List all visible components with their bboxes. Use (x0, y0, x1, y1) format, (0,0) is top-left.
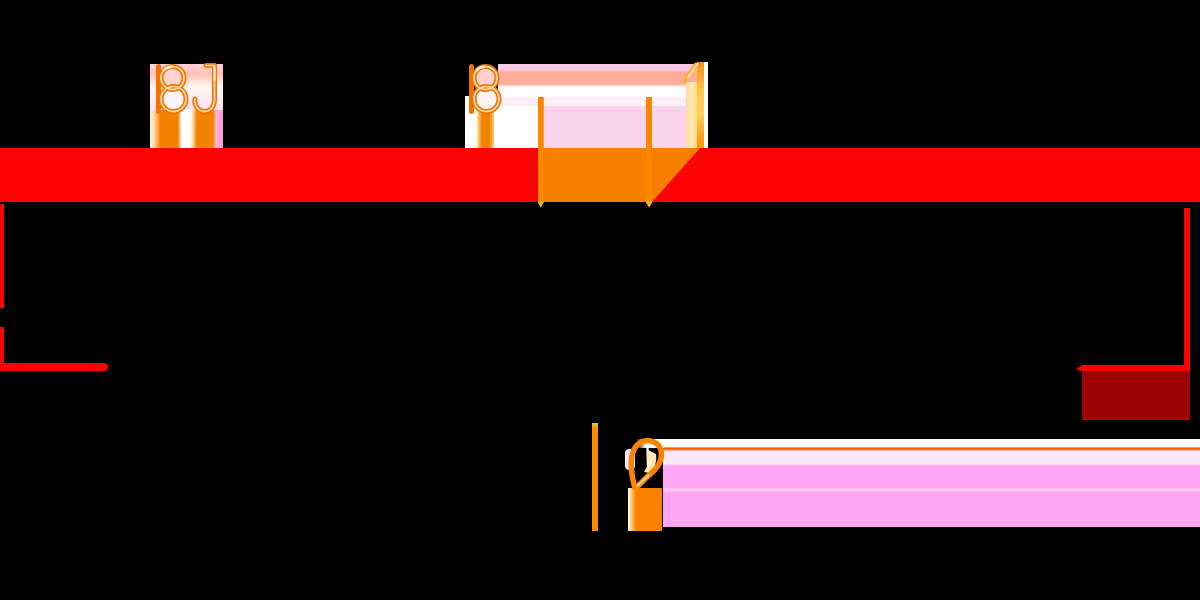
node red progress bar (0, 148, 1200, 202)
wire right vertical line (1184, 208, 1190, 371)
node marker line 1 (538, 97, 544, 208)
numeral 2 (631, 441, 661, 488)
node top pink panel upper bands (498, 64, 708, 106)
wire lone-B trail column (477, 108, 494, 148)
node orange segment on bar (538, 148, 700, 202)
wire left vertical line upper segment (0, 204, 4, 309)
wire numeral-1 white column (704, 62, 709, 148)
node bottom pink band (663, 439, 1200, 527)
letter B lone (472, 67, 500, 112)
wire left vertical line lower segment (0, 327, 4, 365)
node orange block below numeral 2 (628, 488, 662, 531)
wire white band left extension at numeral 2 (636, 439, 664, 448)
numeral 1 flag (686, 64, 698, 80)
node bottom orange marker line (592, 423, 598, 532)
node top pink panel bands (465, 96, 540, 148)
letter J of BJ (195, 66, 215, 112)
wire left horizontal line (0, 363, 108, 371)
wire numeral-1 yellow trail column (686, 82, 697, 148)
node white patch behind numeral 2 (625, 449, 635, 470)
node BJ backdrop glow (150, 64, 223, 112)
node maroon box (1082, 371, 1190, 421)
wire numeral-1 stem (697, 62, 704, 148)
node marker line 2 (646, 97, 653, 208)
wire right horizontal line (1076, 365, 1190, 371)
letter B of BJ (159, 67, 187, 112)
wire BJ trail columns (150, 110, 223, 148)
node top pink panel lower (540, 106, 708, 148)
